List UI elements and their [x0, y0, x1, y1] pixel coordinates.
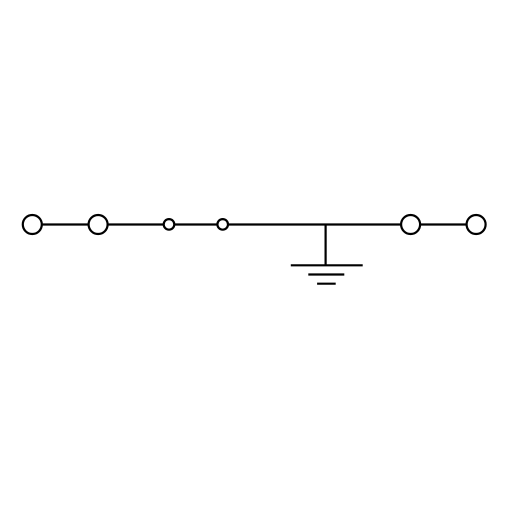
node 3: small junction circle: [164, 219, 175, 230]
node 1: large terminal circle, far left: [23, 215, 42, 234]
ground: earth symbol bar 1 (widest): [291, 264, 363, 266]
ground: earth symbol bar 3 (shortest): [317, 283, 336, 285]
node 5: large terminal circle: [401, 215, 420, 234]
wire: vertical drop from bus to ground: [325, 225, 327, 266]
node 4: small junction circle: [217, 219, 228, 230]
node 6: large terminal circle, far right: [467, 215, 486, 234]
node 2: large terminal circle: [89, 215, 108, 234]
wire: horizontal bus from terminal 1 to terminal 6: [32, 223, 476, 225]
ground: earth symbol bar 2 (middle): [308, 273, 344, 275]
